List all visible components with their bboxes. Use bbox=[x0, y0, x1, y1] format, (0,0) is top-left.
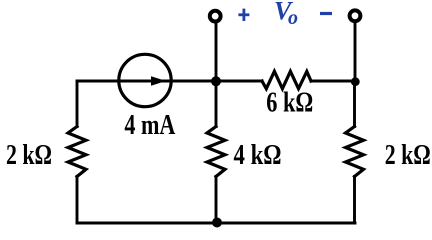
wire left branch top lead bbox=[76, 81, 79, 127]
node A junction dot bbox=[211, 76, 221, 86]
wire middle branch bottom lead bbox=[215, 177, 218, 224]
terminal right (open circle) bbox=[350, 10, 361, 21]
minus sign (blue) bbox=[320, 12, 332, 15]
wire stem left terminal to node A bbox=[215, 22, 218, 81]
wire node A to 6k resistor bbox=[216, 80, 262, 83]
svg-text:2 kΩ: 2 kΩ bbox=[385, 140, 431, 171]
wire bottom rail bbox=[77, 222, 355, 225]
resistor R2 6 kOhm zigzag bbox=[262, 71, 311, 88]
plus sign (blue) bbox=[238, 9, 249, 21]
current source I1 4 mA circle bbox=[119, 54, 171, 106]
wire middle branch top lead bbox=[215, 81, 218, 127]
wire 6k resistor to node B bbox=[311, 80, 355, 83]
wire mid-rail left: left corner to current source bbox=[77, 80, 121, 83]
bottom node junction dot bbox=[212, 218, 222, 228]
resistor R3 4 kOhm zigzag middle bbox=[207, 127, 225, 177]
wire right branch top lead bbox=[353, 81, 356, 127]
terminal left (open circle) bbox=[210, 11, 221, 22]
wire left branch bottom lead bbox=[76, 177, 79, 224]
wire stem right terminal to node B bbox=[354, 22, 357, 81]
node B junction dot bbox=[351, 77, 360, 86]
wire mid-rail through current source to node A bbox=[121, 80, 216, 83]
resistor R4 2 kOhm zigzag right bbox=[346, 127, 364, 177]
resistor R1 2 kOhm zigzag left bbox=[68, 127, 86, 177]
current source arrow bbox=[123, 76, 166, 85]
svg-text:4 mA: 4 mA bbox=[124, 110, 176, 141]
svg-text:4 kΩ: 4 kΩ bbox=[234, 140, 282, 171]
svg-text:2 kΩ: 2 kΩ bbox=[6, 140, 52, 171]
svg-text:6 kΩ: 6 kΩ bbox=[266, 88, 313, 119]
svg-text:o: o bbox=[288, 7, 298, 29]
wire right branch bottom lead bbox=[353, 177, 356, 224]
